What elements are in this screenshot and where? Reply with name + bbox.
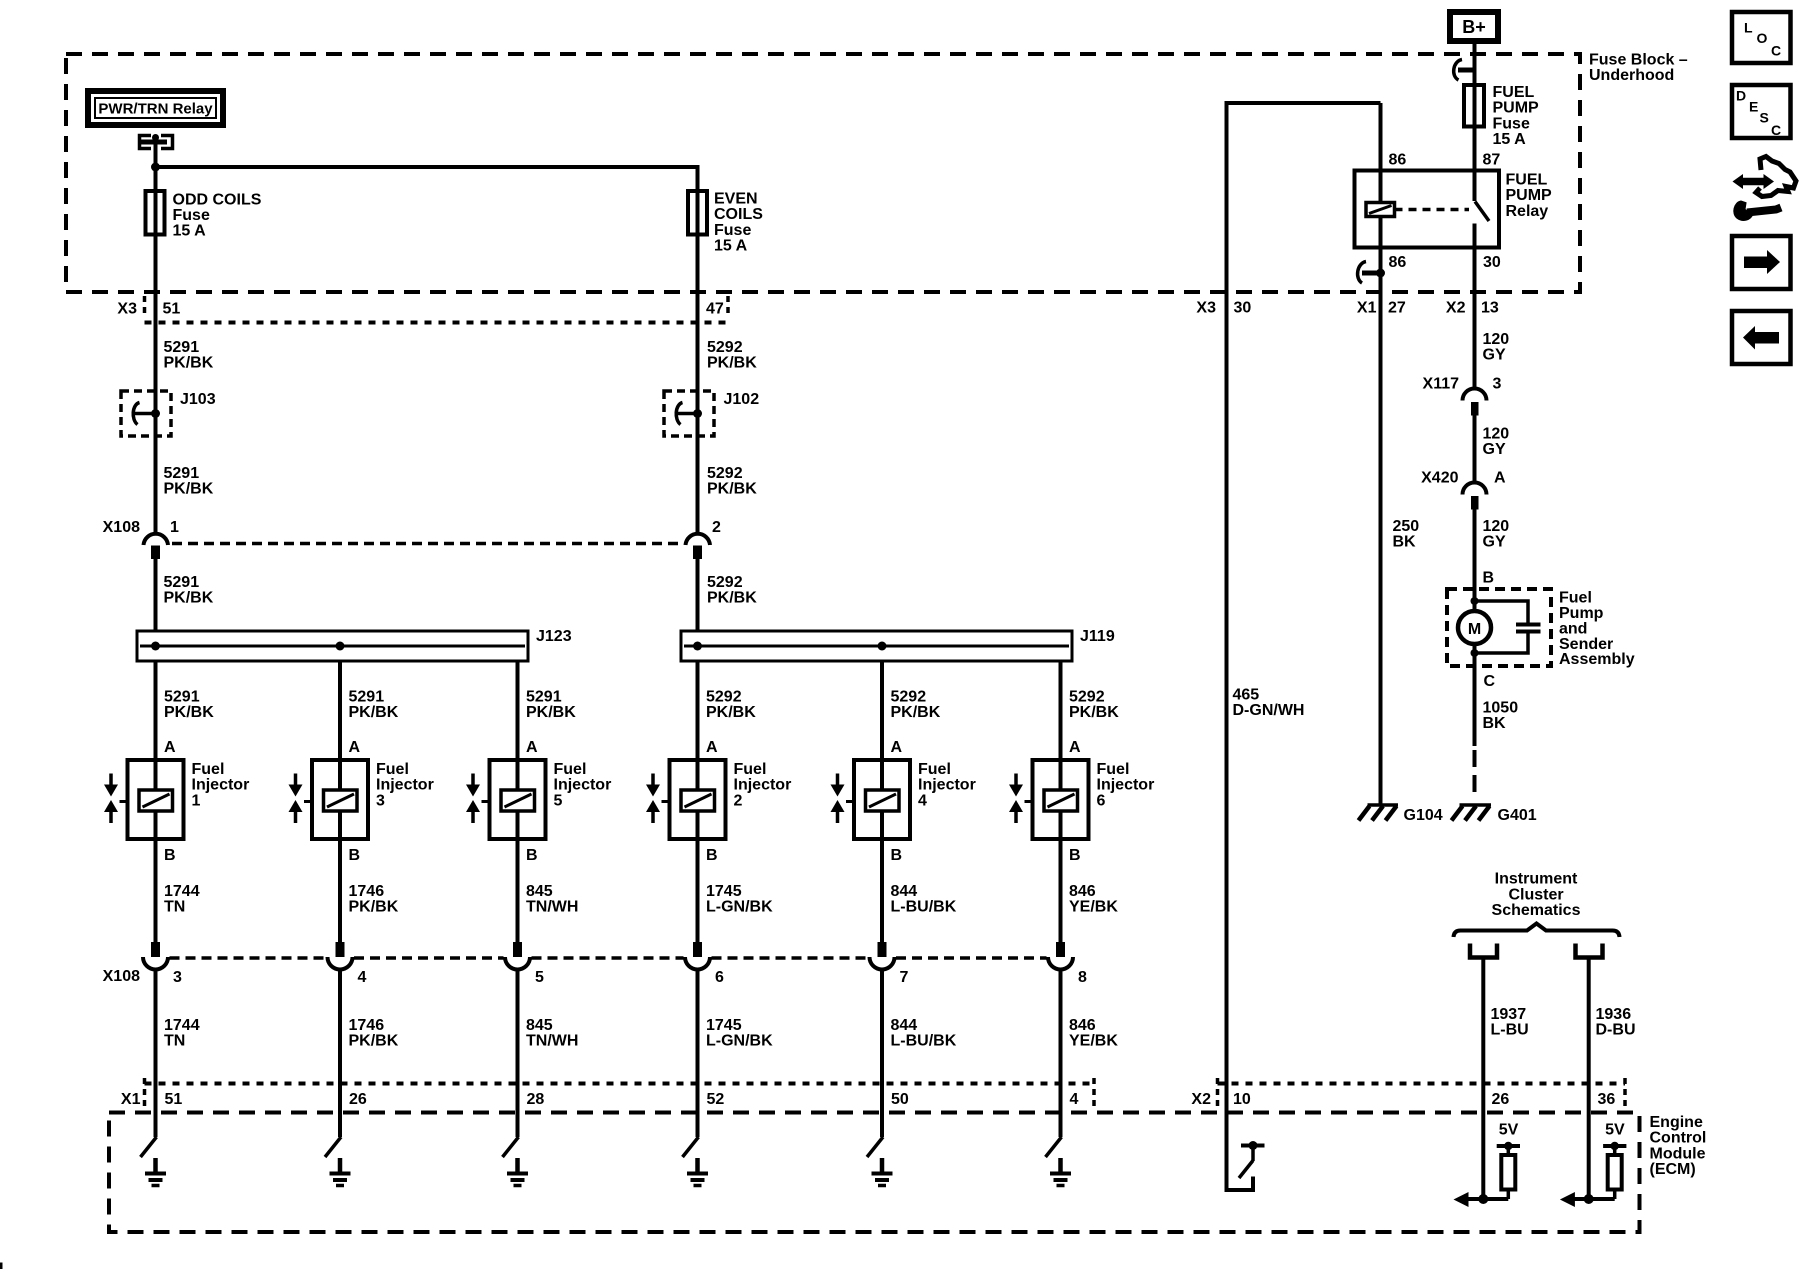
svg-text:1746: 1746 (349, 883, 385, 900)
svg-text:1050: 1050 (1483, 700, 1519, 717)
wire 845 injector 5 to X108 (516, 839, 520, 942)
svg-text:5291: 5291 (164, 465, 200, 482)
svg-text:1936: 1936 (1596, 1006, 1632, 1023)
svg-text:X1: X1 (121, 1091, 141, 1108)
svg-text:3: 3 (376, 792, 385, 809)
svg-text:A: A (1494, 470, 1506, 487)
svg-text:C: C (1771, 43, 1781, 59)
ECM low-side driver switch pin 28 (503, 1137, 519, 1157)
connector row X2 (1216, 1078, 1220, 1110)
bus bar J119 (681, 631, 1072, 661)
svg-text:4: 4 (358, 969, 367, 986)
svg-text:2: 2 (734, 792, 743, 809)
relay coil (1379, 171, 1383, 203)
svg-text:EVEN: EVEN (714, 191, 758, 208)
fuel pump relay box (1355, 171, 1500, 248)
fuel pump and sender assembly box (1447, 589, 1551, 666)
svg-text:B: B (349, 847, 361, 864)
svg-text:FUEL: FUEL (1506, 172, 1548, 189)
icon: LOC box (1732, 12, 1791, 63)
svg-text:2: 2 (712, 519, 721, 536)
cluster terminal 1 (1470, 944, 1497, 958)
svg-text:846: 846 (1069, 883, 1096, 900)
svg-text:A: A (164, 739, 176, 756)
svg-text:X420: X420 (1421, 470, 1458, 487)
B+ power terminal (1450, 12, 1498, 41)
wire: PWR/TRN relay tap down to junction (154, 142, 158, 191)
wire 1936 D-BU (1587, 958, 1591, 1084)
svg-text:PK/BK: PK/BK (707, 481, 757, 498)
wire 5292 PK/BK bus to injector 4 (880, 662, 884, 761)
ground G104 (1368, 803, 1399, 807)
svg-text:TN/WH: TN/WH (526, 899, 578, 916)
svg-text:Injector: Injector (918, 777, 976, 794)
ground symbol inside ECM (153, 1158, 158, 1173)
wire 250 BK relay 85 to ground (1379, 248, 1383, 806)
svg-text:846: 846 (1069, 1017, 1096, 1034)
connector X108 pin 3 (151, 942, 160, 957)
wire fuse to relay pin 87 (1473, 127, 1477, 171)
connector X108 pin 6 (693, 942, 702, 957)
svg-text:D-GN/WH: D-GN/WH (1233, 702, 1305, 719)
svg-text:B: B (891, 847, 903, 864)
svg-text:27: 27 (1388, 300, 1406, 317)
svg-text:Underhood: Underhood (1589, 67, 1674, 84)
svg-text:PK/BK: PK/BK (707, 590, 757, 607)
svg-text:5291: 5291 (164, 689, 200, 706)
svg-text:D: D (1736, 88, 1746, 104)
svg-text:Fuse: Fuse (714, 222, 751, 239)
svg-text:28: 28 (527, 1091, 545, 1108)
svg-text:G401: G401 (1498, 807, 1537, 824)
svg-text:Assembly: Assembly (1559, 651, 1635, 668)
svg-text:4: 4 (918, 792, 927, 809)
ground symbol inside ECM (338, 1158, 343, 1173)
svg-text:L: L (1744, 20, 1753, 36)
svg-text:J119: J119 (1080, 628, 1115, 645)
fuel injector 3 (312, 760, 368, 839)
svg-text:B: B (164, 847, 176, 864)
svg-text:7: 7 (900, 969, 909, 986)
svg-text:86: 86 (1389, 151, 1407, 168)
svg-text:Instrument: Instrument (1495, 871, 1578, 888)
svg-text:120: 120 (1483, 426, 1510, 443)
svg-text:47: 47 (706, 301, 724, 318)
svg-text:5V: 5V (1499, 1122, 1519, 1139)
svg-text:50: 50 (891, 1091, 909, 1108)
fuse block underhood dashed box (66, 54, 1580, 292)
svg-text:Fuse Block –: Fuse Block – (1589, 52, 1688, 69)
svg-text:A: A (706, 739, 718, 756)
svg-text:B: B (1483, 570, 1495, 587)
wire 5291 PK/BK bus to injector 1 (154, 662, 158, 761)
svg-text:51: 51 (165, 1091, 183, 1108)
svg-text:30: 30 (1234, 300, 1252, 317)
splice J103 (121, 391, 171, 436)
svg-text:5292: 5292 (706, 689, 742, 706)
connector X420 pin A (1463, 483, 1487, 495)
junction node (151, 163, 160, 172)
svg-text:Fuel: Fuel (734, 761, 767, 778)
svg-text:5291: 5291 (349, 689, 385, 706)
wire 120 GY to pump (1473, 510, 1477, 590)
svg-text:TN: TN (164, 1033, 185, 1050)
svg-text:B: B (1069, 847, 1081, 864)
svg-text:4: 4 (1070, 1091, 1079, 1108)
svg-text:YE/BK: YE/BK (1069, 1033, 1118, 1050)
svg-text:X117: X117 (1423, 376, 1460, 393)
svg-text:8: 8 (1078, 969, 1087, 986)
wire into ECM pin 36 (1587, 1084, 1591, 1200)
svg-text:1746: 1746 (349, 1017, 385, 1034)
wire 465 D-GN/WH: relay coil feed to ECM X2-10 (1225, 101, 1229, 1192)
fuel pump motor (1458, 611, 1491, 644)
svg-text:X108: X108 (103, 519, 140, 536)
svg-text:PK/BK: PK/BK (164, 590, 214, 607)
svg-text:COILS: COILS (714, 206, 763, 223)
svg-text:X3: X3 (117, 301, 137, 318)
svg-text:GY: GY (1483, 441, 1506, 458)
svg-text:Injector: Injector (554, 777, 612, 794)
svg-text:120: 120 (1483, 518, 1510, 535)
svg-text:PUMP: PUMP (1506, 187, 1553, 204)
svg-text:86: 86 (1389, 254, 1407, 271)
svg-text:5291: 5291 (164, 339, 200, 356)
connector X108 pin 2 (686, 534, 711, 545)
svg-text:PK/BK: PK/BK (706, 704, 756, 721)
svg-text:PK/BK: PK/BK (1069, 704, 1119, 721)
svg-text:J123: J123 (536, 628, 572, 645)
ground symbol inside ECM (515, 1158, 520, 1173)
fuse block internal feed to relay coil (1227, 101, 1381, 105)
svg-text:36: 36 (1598, 1091, 1616, 1108)
svg-text:L-GN/BK: L-GN/BK (706, 1033, 773, 1050)
svg-text:GY: GY (1483, 347, 1506, 364)
wire 846 X108 to ECM pin 4 (1059, 968, 1063, 1138)
svg-text:52: 52 (707, 1091, 725, 1108)
wire 846 injector 6 to X108 (1059, 839, 1063, 942)
svg-text:PUMP: PUMP (1493, 100, 1540, 117)
wire 1746 X108 to ECM pin 26 (338, 968, 342, 1138)
PWR/TRN Relay label box (88, 91, 223, 125)
svg-text:Injector: Injector (734, 777, 792, 794)
wire 1744 X108 to ECM pin 51 (154, 968, 158, 1138)
svg-text:Relay: Relay (1506, 203, 1549, 220)
wire 5292 PK/BK fuse to splice (696, 235, 700, 535)
svg-text:PK/BK: PK/BK (164, 481, 214, 498)
svg-text:5291: 5291 (526, 689, 562, 706)
svg-text:L-GN/BK: L-GN/BK (706, 899, 773, 916)
wire 5291 PK/BK to J123 (154, 559, 158, 632)
svg-text:TN: TN (164, 899, 185, 916)
svg-text:YE/BK: YE/BK (1069, 899, 1118, 916)
svg-text:3: 3 (173, 969, 182, 986)
scan artifact bottom-left (0, 1263, 3, 1270)
connector row X3 (pins 51/47) (143, 296, 147, 318)
ECM low-side driver switch pin 50 (867, 1137, 883, 1157)
svg-text:PK/BK: PK/BK (164, 704, 214, 721)
ECM low-side driver switch pin 52 (683, 1137, 699, 1157)
svg-text:ODD COILS: ODD COILS (173, 191, 262, 208)
svg-text:5292: 5292 (707, 574, 743, 591)
fuel injector 5 (490, 760, 546, 839)
wire 120 GY (1473, 416, 1477, 484)
svg-text:GY: GY (1483, 534, 1506, 551)
svg-text:250: 250 (1393, 518, 1420, 535)
ECM relay driver symbol (1227, 1177, 1254, 1191)
ground symbol inside ECM (695, 1158, 700, 1173)
ground symbol inside ECM (1058, 1158, 1063, 1173)
svg-text:5292: 5292 (707, 465, 743, 482)
svg-text:1745: 1745 (706, 1017, 742, 1034)
icon: back arrow (1732, 311, 1791, 364)
svg-text:O: O (1757, 30, 1768, 46)
svg-text:A: A (526, 739, 538, 756)
svg-text:6: 6 (715, 969, 724, 986)
svg-text:C: C (1771, 122, 1781, 138)
svg-text:15 A: 15 A (173, 223, 207, 240)
cluster terminal 2 (1576, 944, 1603, 958)
wire 5292 PK/BK to J119 (696, 559, 700, 632)
X108 bottom dashed row (170, 956, 327, 960)
wire 1937 L-BU (1481, 958, 1485, 1084)
svg-text:5291: 5291 (164, 574, 200, 591)
svg-text:465: 465 (1233, 687, 1260, 704)
svg-text:PK/BK: PK/BK (349, 1033, 399, 1050)
svg-text:Engine: Engine (1650, 1114, 1703, 1131)
svg-text:844: 844 (891, 1017, 918, 1034)
wire 5291 PK/BK fuse to splice (154, 235, 158, 535)
svg-text:L-BU/BK: L-BU/BK (891, 899, 957, 916)
Engine Control Module dashed box (109, 1113, 1640, 1233)
svg-text:5292: 5292 (891, 689, 927, 706)
svg-text:Schematics: Schematics (1492, 902, 1581, 919)
svg-text:PK/BK: PK/BK (891, 704, 941, 721)
splice J102 (664, 391, 714, 436)
svg-text:26: 26 (349, 1091, 367, 1108)
relay switch contact (1473, 171, 1477, 202)
svg-text:E: E (1749, 99, 1758, 115)
svg-text:BK: BK (1483, 715, 1507, 732)
svg-text:A: A (1069, 739, 1081, 756)
svg-text:Cluster: Cluster (1508, 886, 1563, 903)
svg-text:S: S (1760, 110, 1769, 126)
svg-text:5V: 5V (1605, 1122, 1625, 1139)
fuse: EVEN COILS 15A (688, 191, 707, 235)
svg-text:TN/WH: TN/WH (526, 1033, 578, 1050)
wire 844 X108 to ECM pin 50 (880, 968, 884, 1138)
fuse: ODD COILS 15A (146, 191, 165, 235)
svg-text:1744: 1744 (164, 883, 200, 900)
svg-text:L-BU: L-BU (1491, 1022, 1529, 1039)
ECM low-side driver switch pin 4 (1046, 1137, 1062, 1157)
clip symbol at B+ feed (1458, 68, 1476, 73)
ground G401 (1460, 803, 1492, 807)
icon: DESC box (1732, 85, 1791, 138)
svg-text:PK/BK: PK/BK (349, 899, 399, 916)
connector X117 pin 3 (1463, 389, 1487, 401)
ground symbol inside ECM (880, 1158, 885, 1173)
svg-text:PK/BK: PK/BK (526, 704, 576, 721)
svg-text:PWR/TRN Relay: PWR/TRN Relay (98, 101, 213, 118)
wire 120 GY relay 30 down (1473, 248, 1477, 390)
svg-text:Module: Module (1650, 1145, 1706, 1162)
wire 5292 PK/BK bus to injector 2 (696, 662, 700, 761)
svg-text:FUEL: FUEL (1493, 84, 1535, 101)
PWR/TRN relay tap symbol (140, 136, 152, 149)
svg-text:PK/BK: PK/BK (349, 704, 399, 721)
svg-text:1744: 1744 (164, 1017, 200, 1034)
svg-text:X3: X3 (1196, 300, 1216, 317)
wire: feed across to even coils fuse (154, 165, 698, 169)
svg-text:Fuel: Fuel (918, 761, 951, 778)
svg-text:(ECM): (ECM) (1650, 1161, 1696, 1178)
svg-text:G104: G104 (1404, 807, 1443, 824)
connector X108 pin 8 (1056, 942, 1065, 957)
relay actuation dashed link (1395, 208, 1470, 212)
svg-text:51: 51 (163, 301, 181, 318)
ECM low-side driver switch pin 51 (141, 1137, 157, 1157)
connector row X108 dashed line (172, 542, 683, 546)
svg-text:15 A: 15 A (1493, 131, 1527, 148)
fuel injector 1 (128, 760, 184, 839)
icon: forward arrow (1732, 236, 1791, 289)
svg-text:C: C (1484, 673, 1496, 690)
svg-text:J102: J102 (724, 391, 760, 408)
fuel injector 4 (854, 760, 910, 839)
svg-text:5292: 5292 (1069, 689, 1105, 706)
svg-text:844: 844 (891, 883, 918, 900)
wire 5291 PK/BK bus to injector 5 (516, 662, 520, 761)
svg-text:PK/BK: PK/BK (164, 355, 214, 372)
svg-text:Fuel: Fuel (192, 761, 225, 778)
svg-text:B: B (526, 847, 538, 864)
svg-text:BK: BK (1393, 534, 1417, 551)
wire 1744 injector 1 to X108 (154, 839, 158, 942)
svg-text:120: 120 (1483, 331, 1510, 348)
svg-text:Injector: Injector (192, 777, 250, 794)
fuel injector 2 (670, 760, 726, 839)
svg-text:Fuse: Fuse (173, 207, 210, 224)
svg-text:A: A (891, 739, 903, 756)
svg-text:845: 845 (526, 1017, 553, 1034)
svg-text:Fuel: Fuel (554, 761, 587, 778)
dashed wire to G401 (1473, 750, 1477, 797)
connector X108 pin 1 (144, 534, 169, 545)
svg-text:X2: X2 (1446, 300, 1466, 317)
connector X108 pin 7 (878, 942, 887, 957)
svg-text:3: 3 (1493, 376, 1502, 393)
wire 1746 injector 3 to X108 (338, 839, 342, 942)
svg-text:A: A (349, 739, 361, 756)
connector X108 pin 5 (513, 942, 522, 957)
svg-text:B: B (706, 847, 718, 864)
svg-text:26: 26 (1492, 1091, 1510, 1108)
svg-text:PK/BK: PK/BK (707, 355, 757, 372)
ECM low-side driver switch pin 26 (325, 1137, 341, 1157)
wire 1745 X108 to ECM pin 52 (696, 968, 700, 1138)
connector X108 pin 4 (336, 942, 345, 957)
svg-text:X2: X2 (1191, 1091, 1211, 1108)
svg-text:Fuel: Fuel (376, 761, 409, 778)
svg-text:5: 5 (554, 792, 563, 809)
fuel injector 6 (1033, 760, 1089, 839)
wire B+ down (1473, 41, 1477, 85)
svg-text:13: 13 (1481, 300, 1499, 317)
svg-text:D-BU: D-BU (1596, 1022, 1636, 1039)
svg-text:30: 30 (1483, 254, 1501, 271)
svg-text:10: 10 (1233, 1091, 1251, 1108)
pump feed wire and node (1473, 589, 1477, 611)
svg-text:X108: X108 (103, 968, 140, 985)
svg-text:845: 845 (526, 883, 553, 900)
svg-text:1: 1 (170, 519, 179, 536)
svg-text:5: 5 (535, 969, 544, 986)
svg-text:B+: B+ (1462, 17, 1486, 37)
svg-text:15 A: 15 A (714, 237, 748, 254)
brace (1454, 924, 1620, 938)
clip symbol on 85 wire (1362, 271, 1381, 276)
svg-text:87: 87 (1483, 151, 1501, 168)
svg-text:Control: Control (1650, 1130, 1707, 1147)
svg-text:Injector: Injector (1097, 777, 1155, 794)
wire 844 injector 4 to X108 (880, 839, 884, 942)
wire into ECM pin 26 (1481, 1084, 1485, 1200)
wire 5291 PK/BK bus to injector 3 (338, 662, 342, 761)
svg-text:J103: J103 (180, 391, 216, 408)
svg-text:Injector: Injector (376, 777, 434, 794)
svg-text:5292: 5292 (707, 339, 743, 356)
fuse: FUEL PUMP 15A (1464, 85, 1484, 127)
wire 5292 PK/BK bus to injector 6 (1059, 662, 1063, 761)
svg-text:X1: X1 (1357, 300, 1377, 317)
svg-text:L-BU/BK: L-BU/BK (891, 1033, 957, 1050)
wire 1745 injector 2 to X108 (696, 839, 700, 942)
wire 845 X108 to ECM pin 28 (516, 968, 520, 1138)
svg-text:1937: 1937 (1491, 1006, 1527, 1023)
connector row X1 (143, 1078, 147, 1110)
icon: navigation glyph (1740, 178, 1767, 186)
svg-text:1: 1 (192, 792, 201, 809)
svg-text:M: M (1468, 621, 1481, 638)
capacitor branch (1475, 601, 1529, 623)
svg-text:Fuse: Fuse (1493, 115, 1530, 132)
bus bar J123 (137, 631, 528, 661)
svg-text:1745: 1745 (706, 883, 742, 900)
svg-text:Fuel: Fuel (1097, 761, 1130, 778)
svg-text:6: 6 (1097, 792, 1106, 809)
